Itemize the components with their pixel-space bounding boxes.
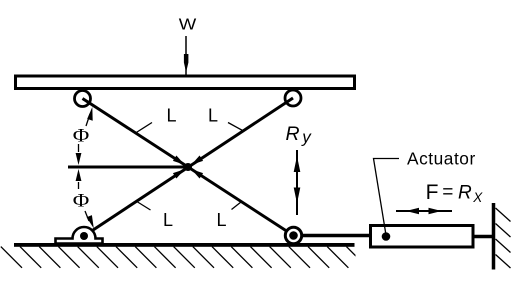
svg-text:Actuator: Actuator: [407, 148, 476, 168]
pin dot bottom-left: [80, 232, 88, 240]
ground line: [14, 243, 355, 247]
svg-text:Φ: Φ: [73, 126, 90, 147]
platform (top bar): [16, 76, 355, 89]
svg-text:=: =: [442, 182, 453, 203]
wall hatching: [496, 208, 511, 268]
svg-text:L: L: [163, 210, 173, 230]
tick for L bottom-left: [136, 201, 151, 210]
pin circle top-right: [285, 90, 301, 106]
rod from roller to actuator: [301, 234, 370, 238]
tick for L top-right: [228, 123, 244, 132]
wire link A (top-left pin to bottom-right roller): [83, 99, 294, 236]
pin circle top-left: [75, 91, 91, 107]
svg-text:X: X: [472, 190, 483, 205]
svg-text:R: R: [458, 183, 472, 204]
rod from actuator to wall: [473, 235, 494, 239]
svg-text:F: F: [426, 181, 439, 204]
arrow W (load arrow): [184, 36, 189, 75]
wire link B (top-right pin to bottom-left pin): [84, 98, 293, 236]
label F = Rx: [426, 181, 484, 205]
svg-text:W: W: [179, 17, 198, 34]
tick for L top-left: [136, 123, 153, 134]
svg-text:L: L: [208, 106, 218, 126]
node center pivot: [173, 156, 203, 179]
arrow F (double-headed horizontal): [396, 208, 452, 215]
arrow Ry (double-headed vertical): [294, 150, 301, 215]
wall (fixed support right): [492, 203, 496, 270]
tick for L bottom-right: [232, 202, 242, 210]
leader arrow from lower Phi to bottom pin: [85, 211, 94, 229]
roller pin bottom-right: [285, 227, 301, 243]
leader arrow from upper Phi to link: [86, 107, 93, 126]
actuator body: [371, 226, 474, 248]
svg-text:L: L: [166, 106, 176, 126]
horizontal reference line: [68, 166, 188, 169]
pin support bracket bottom-left: [56, 227, 103, 244]
angle dimension arrows at horizontal line: [76, 144, 82, 189]
svg-text:R: R: [286, 123, 300, 145]
svg-text:Φ: Φ: [73, 191, 90, 212]
actuator pin dot: [382, 232, 391, 241]
label Ry: [286, 123, 313, 147]
svg-text:L: L: [216, 210, 226, 230]
leader line to Actuator label: [374, 159, 400, 236]
svg-text:y: y: [301, 128, 312, 147]
